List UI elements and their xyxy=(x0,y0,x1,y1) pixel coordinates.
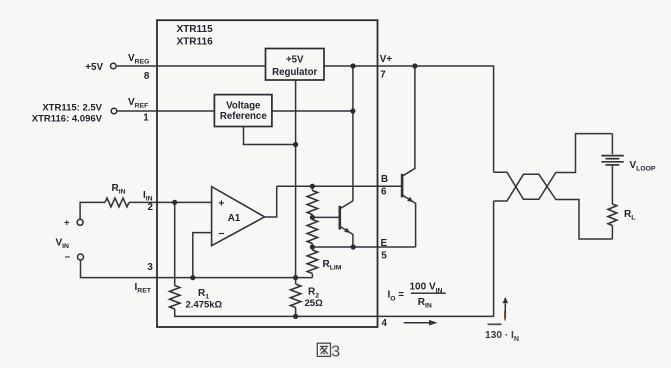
svg-text:7: 7 xyxy=(380,69,386,80)
svg-text:8: 8 xyxy=(144,71,150,82)
svg-text:6: 6 xyxy=(381,186,387,197)
svg-text:5: 5 xyxy=(381,251,387,262)
svg-text:−: − xyxy=(64,252,70,263)
svg-text:Reference: Reference xyxy=(220,111,267,122)
svg-text:XTR115: 2.5V: XTR115: 2.5V xyxy=(42,102,102,113)
svg-text:IO =: IO = xyxy=(388,290,405,303)
svg-text:XTR116: XTR116 xyxy=(177,36,214,47)
svg-text:+: + xyxy=(218,197,224,209)
svg-text:+: + xyxy=(64,218,70,229)
svg-text:4: 4 xyxy=(382,318,388,329)
svg-text:2: 2 xyxy=(148,202,154,213)
svg-text:+5V: +5V xyxy=(85,62,103,73)
svg-text:Voltage: Voltage xyxy=(226,100,261,111)
svg-text:1: 1 xyxy=(143,112,149,123)
svg-text:2.475kΩ: 2.475kΩ xyxy=(186,300,223,311)
svg-text:XTR115: XTR115 xyxy=(177,24,214,35)
svg-text:XTR116: 4.096V: XTR116: 4.096V xyxy=(32,114,103,125)
svg-text:Regulator: Regulator xyxy=(272,67,317,78)
svg-text:3: 3 xyxy=(331,343,340,360)
svg-text:25Ω: 25Ω xyxy=(305,298,324,309)
svg-text:E: E xyxy=(381,238,388,249)
svg-text:−: − xyxy=(218,228,224,240)
svg-text:3: 3 xyxy=(147,262,153,273)
svg-text:B: B xyxy=(381,174,388,185)
svg-text:130 · IN: 130 · IN xyxy=(485,330,519,343)
svg-text:+5V: +5V xyxy=(286,54,304,65)
svg-text:V+: V+ xyxy=(380,54,393,65)
svg-text:A1: A1 xyxy=(228,213,241,224)
